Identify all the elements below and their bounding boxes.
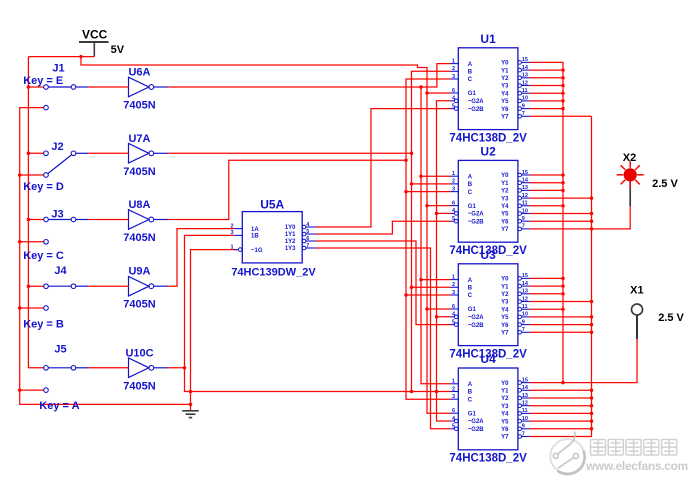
svg-text:U4: U4 <box>480 352 496 366</box>
svg-text:B: B <box>468 286 473 292</box>
svg-text:J4: J4 <box>54 265 67 277</box>
svg-text:C: C <box>468 293 473 299</box>
svg-text:Key = C: Key = C <box>23 250 64 262</box>
svg-text:6: 6 <box>306 236 309 242</box>
svg-text:7: 7 <box>306 243 309 249</box>
svg-text:7405N: 7405N <box>123 380 155 392</box>
svg-text:14: 14 <box>522 65 529 71</box>
decoder U2 74HC138D_2V <box>449 145 530 257</box>
svg-text:~G2A: ~G2A <box>468 315 485 321</box>
svg-text:J3: J3 <box>51 209 63 221</box>
svg-text:Key = B: Key = B <box>23 319 64 331</box>
svg-text:C: C <box>468 397 473 403</box>
svg-text:Y1: Y1 <box>501 181 509 187</box>
svg-text:U6A: U6A <box>128 67 150 79</box>
svg-text:~G2B: ~G2B <box>468 219 485 225</box>
svg-text:X1: X1 <box>630 284 643 296</box>
svg-text:J5: J5 <box>54 343 66 355</box>
watermark logo (decorative) <box>550 432 584 475</box>
svg-text:Y5: Y5 <box>501 419 509 425</box>
svg-text:Y4: Y4 <box>501 204 509 210</box>
svg-text:Y2: Y2 <box>501 189 509 195</box>
svg-text:5: 5 <box>452 424 455 430</box>
svg-text:3: 3 <box>452 290 455 296</box>
svg-text:13: 13 <box>522 393 528 399</box>
svg-text:~G2A: ~G2A <box>468 212 485 218</box>
stubs: G1 pins from VCC trunk <box>427 93 450 309</box>
svg-text:12: 12 <box>522 296 528 302</box>
svg-text:2.5 V: 2.5 V <box>658 312 684 324</box>
junction: ground rail <box>189 403 193 407</box>
svg-text:11: 11 <box>522 201 528 207</box>
svg-text:12: 12 <box>522 80 528 86</box>
decoder U4 74HC138D_2V <box>449 352 530 464</box>
wire: U4 Y1-Y6 to V2 <box>530 390 592 429</box>
svg-text:Y0: Y0 <box>501 277 509 283</box>
svg-text:7405N: 7405N <box>123 100 155 112</box>
svg-text:1Y0: 1Y0 <box>285 225 296 231</box>
svg-text:12: 12 <box>522 193 528 199</box>
svg-text:~G2A: ~G2A <box>468 99 485 105</box>
decoder U5A 74HC139DW_2V <box>230 197 316 278</box>
wire: VCC feeder to G1 trunk <box>81 57 450 414</box>
svg-text:7405N: 7405N <box>123 232 155 244</box>
svg-text:15: 15 <box>522 377 528 383</box>
svg-text:13: 13 <box>522 185 528 191</box>
svg-text:Y4: Y4 <box>501 412 509 418</box>
junction V1 bottom at X1 row <box>561 381 565 385</box>
power VCC 5V <box>79 28 125 57</box>
wire: V1 collector bus with U1 Y0 <box>530 62 563 382</box>
svg-text:Key = A: Key = A <box>39 400 79 412</box>
wire: U8A output riser to C-trunk <box>168 160 407 219</box>
svg-text:www.elecfans.com: www.elecfans.com <box>585 459 688 473</box>
wire: C-trunk (U8A net) to C pins <box>406 79 450 399</box>
svg-text:6: 6 <box>452 200 455 206</box>
svg-text:7: 7 <box>522 431 525 437</box>
wire: U9A output to U5A 1A <box>168 229 235 287</box>
svg-text:X2: X2 <box>623 152 636 164</box>
wire: J3 pole to U8A input <box>88 219 129 221</box>
wire: V2 collector bus with U4 Y7 <box>530 116 592 436</box>
svg-text:14: 14 <box>522 385 529 391</box>
svg-text:Y1: Y1 <box>501 68 509 74</box>
indicator lamp X1 (off) 2.5 V <box>630 284 684 339</box>
svg-text:9: 9 <box>522 319 525 325</box>
junctions on 1B riser row <box>183 366 193 393</box>
svg-text:9: 9 <box>522 103 525 109</box>
wire: U5A 1Y3 to U4 ~G2B <box>316 248 451 429</box>
svg-text:Key = E: Key = E <box>23 75 63 87</box>
svg-text:2.5 V: 2.5 V <box>652 178 678 190</box>
svg-text:5: 5 <box>452 216 455 222</box>
svg-text:C: C <box>468 190 473 196</box>
svg-text:U10C: U10C <box>125 347 153 359</box>
svg-text:Y4: Y4 <box>501 91 509 97</box>
svg-text:J1: J1 <box>52 63 64 75</box>
junctions on B-trunk <box>410 152 414 394</box>
junctions V1 at U1 rows <box>561 68 565 110</box>
svg-text:G1: G1 <box>468 411 477 417</box>
junctions V1 at U3 rows <box>561 277 565 311</box>
svg-text:3: 3 <box>230 230 233 236</box>
svg-text:~1G: ~1G <box>251 248 263 254</box>
svg-text:74HC139DW_2V: 74HC139DW_2V <box>231 266 316 278</box>
svg-text:~G2B: ~G2B <box>468 107 485 113</box>
wire: J1 pole to U6A input <box>88 86 129 88</box>
svg-text:3: 3 <box>452 394 455 400</box>
svg-text:5: 5 <box>306 229 309 235</box>
svg-text:U9A: U9A <box>128 266 150 278</box>
inverter U6A 7405N <box>123 67 167 112</box>
svg-text:Y7: Y7 <box>501 331 509 337</box>
svg-text:1: 1 <box>452 171 455 177</box>
wire: U5A ~1G to ground <box>191 250 237 411</box>
svg-text:Y3: Y3 <box>501 196 509 202</box>
svg-text:U2: U2 <box>480 145 496 159</box>
svg-text:Key = D: Key = D <box>23 181 64 193</box>
svg-text:74HC138D_2V: 74HC138D_2V <box>449 453 527 465</box>
svg-text:Y5: Y5 <box>501 99 509 105</box>
svg-text:10: 10 <box>522 416 528 422</box>
svg-text:6: 6 <box>452 88 455 94</box>
svg-text:Y4: Y4 <box>501 307 509 313</box>
wire: U2 Y0,Y1,Y2,Y4 to V1 <box>530 175 563 206</box>
svg-text:9: 9 <box>522 424 525 430</box>
junction: VCC branch and G1 taps <box>79 55 429 311</box>
svg-text:10: 10 <box>522 208 528 214</box>
svg-text:B: B <box>468 182 473 188</box>
svg-text:Y7: Y7 <box>501 115 509 121</box>
inverter U10C 7405N <box>123 347 167 392</box>
inverter U9A 7405N <box>123 266 167 311</box>
junctions V1 at U2 rows <box>561 173 565 207</box>
svg-text:11: 11 <box>522 408 528 414</box>
wire: J4 pole to U9A input <box>88 285 129 287</box>
svg-text:Y6: Y6 <box>501 107 509 113</box>
svg-text:Y0: Y0 <box>501 173 509 179</box>
wire: U10C output to 1B riser <box>168 367 185 369</box>
svg-text:Y2: Y2 <box>501 396 509 402</box>
wire: B-trunk (U7A net) to B pins <box>412 71 451 391</box>
switch J3 Key = C <box>23 209 88 263</box>
svg-text:U3: U3 <box>480 248 496 262</box>
svg-text:11: 11 <box>522 88 528 94</box>
wire: U2 Y7 to lamp X2 <box>530 206 630 229</box>
svg-text:J2: J2 <box>51 141 63 153</box>
svg-text:Y3: Y3 <box>501 404 509 410</box>
svg-text:15: 15 <box>522 273 528 279</box>
svg-text:~G2B: ~G2B <box>468 323 485 329</box>
svg-text:10: 10 <box>522 96 528 102</box>
svg-text:A: A <box>468 278 473 284</box>
svg-text:Y5: Y5 <box>501 315 509 321</box>
svg-text:U1: U1 <box>480 32 496 46</box>
svg-text:U5A: U5A <box>260 197 284 211</box>
svg-text:3: 3 <box>452 186 455 192</box>
svg-text:7: 7 <box>522 224 525 230</box>
svg-text:A: A <box>468 382 473 388</box>
svg-text:9: 9 <box>522 216 525 222</box>
svg-text:Y2: Y2 <box>501 76 509 82</box>
wire: A-trunk (U6A net) to A pins <box>421 87 450 384</box>
svg-text:G1: G1 <box>468 204 477 210</box>
svg-text:5V: 5V <box>111 44 125 56</box>
wire: U1 Y7 to V2 top <box>530 115 592 117</box>
indicator lamp X2 (lit) 2.5 V <box>617 152 679 206</box>
wire: bus1 VCC distribution to switch upper throws <box>28 57 43 368</box>
wire: U3 Y0,Y1,Y2,Y4 to V1 <box>530 278 563 309</box>
watermark text (decorative) <box>591 440 677 456</box>
svg-text:1Y1: 1Y1 <box>285 232 296 238</box>
svg-text:Y0: Y0 <box>501 61 509 67</box>
wire: J2 pole to U7A input <box>88 152 129 154</box>
wire: U7A output to B-trunk <box>168 152 412 154</box>
svg-text:1: 1 <box>452 379 455 385</box>
svg-text:74HC138D_2V: 74HC138D_2V <box>449 132 527 144</box>
svg-text:B: B <box>468 390 473 396</box>
svg-text:7: 7 <box>522 111 525 117</box>
svg-text:2: 2 <box>230 223 233 229</box>
svg-text:B: B <box>468 70 473 76</box>
wire: U5A 1Y2 to U3 ~G2B <box>316 241 451 325</box>
svg-text:VCC: VCC <box>82 28 108 42</box>
inverter U7A 7405N <box>123 133 167 178</box>
decoder U3 74HC138D_2V <box>449 248 530 360</box>
junctions V2 at U3 rows <box>590 300 594 334</box>
svg-text:15: 15 <box>522 57 528 63</box>
switch J2 Key = D <box>23 141 88 193</box>
wire: U5A 1Y0 to U1 ~G2B <box>316 109 451 227</box>
svg-text:6: 6 <box>452 408 455 414</box>
svg-text:1Y2: 1Y2 <box>285 239 296 245</box>
svg-text:Y1: Y1 <box>501 284 509 290</box>
svg-text:2: 2 <box>452 282 455 288</box>
wire: U6A output to A-trunk and U1 A pin <box>168 64 451 87</box>
svg-text:14: 14 <box>522 281 529 287</box>
svg-text:Y5: Y5 <box>501 212 509 218</box>
svg-text:Y0: Y0 <box>501 381 509 387</box>
svg-text:Y6: Y6 <box>501 323 509 329</box>
junctions on C-trunk <box>404 159 408 297</box>
wire: J5 pole to U10C input <box>88 367 129 369</box>
svg-text:G1: G1 <box>468 91 477 97</box>
switch J1 Key = E <box>23 63 88 110</box>
svg-text:~G2A: ~G2A <box>468 419 485 425</box>
svg-text:6: 6 <box>452 304 455 310</box>
svg-text:2: 2 <box>452 386 455 392</box>
svg-text:Y6: Y6 <box>501 219 509 225</box>
svg-text:U8A: U8A <box>128 199 150 211</box>
wire: U5A 1B riser and ground-row feed to U4 B pin <box>185 235 451 391</box>
svg-text:14: 14 <box>522 178 529 184</box>
svg-text:13: 13 <box>522 73 528 79</box>
wire: bus2 switch lower throws to ground rail <box>20 108 191 405</box>
svg-text:5: 5 <box>452 319 455 325</box>
svg-text:1B: 1B <box>251 234 259 240</box>
junction dots on bus1 <box>27 85 31 288</box>
svg-text:1: 1 <box>230 244 233 250</box>
svg-text:10: 10 <box>522 312 528 318</box>
svg-text:Y2: Y2 <box>501 292 509 298</box>
svg-text:Y6: Y6 <box>501 427 509 433</box>
svg-text:U7A: U7A <box>128 133 150 145</box>
svg-text:~G2B: ~G2B <box>468 427 485 433</box>
wire: U5A 1Y1 to U2 ~G2B <box>316 221 451 234</box>
svg-text:A: A <box>468 62 473 68</box>
junctions on A-trunk <box>419 85 423 281</box>
wire: U2 Y3,Y5,Y6 to V2 <box>530 198 592 221</box>
wire: VCC top rail <box>28 56 94 58</box>
svg-text:1Y3: 1Y3 <box>285 246 296 252</box>
junction V2 at X2 row <box>590 227 594 231</box>
svg-text:2: 2 <box>452 66 455 72</box>
svg-text:1: 1 <box>452 58 455 64</box>
svg-text:7: 7 <box>522 327 525 333</box>
svg-text:2: 2 <box>452 179 455 185</box>
inverter U8A 7405N <box>123 199 167 244</box>
svg-text:A: A <box>468 174 473 180</box>
svg-text:13: 13 <box>522 289 528 295</box>
switch J4 Key = B <box>23 265 88 331</box>
decoder U1 74HC138D_2V <box>449 32 530 144</box>
wire: G2A-trunk to ~G2A pins <box>437 101 451 421</box>
junctions on G2A-trunk <box>435 212 439 394</box>
svg-text:7405N: 7405N <box>123 299 155 311</box>
wire: U1 Y1-Y6 to V1 <box>530 70 563 109</box>
svg-text:12: 12 <box>522 401 528 407</box>
svg-text:Y3: Y3 <box>501 300 509 306</box>
wire: U4 Y0 to probe X1 <box>530 339 637 383</box>
svg-text:3: 3 <box>452 74 455 80</box>
junction dots on bus2 <box>18 173 22 392</box>
junctions V2 at U2 rows <box>590 196 594 223</box>
junctions V2 at U4 rows <box>590 389 594 431</box>
svg-text:11: 11 <box>522 304 528 310</box>
svg-text:G1: G1 <box>468 307 477 313</box>
svg-text:15: 15 <box>522 170 528 176</box>
svg-text:Y7: Y7 <box>501 227 509 233</box>
svg-text:5: 5 <box>452 103 455 109</box>
switch J5 Key = A <box>39 343 88 412</box>
svg-text:7405N: 7405N <box>123 166 155 178</box>
svg-text:Y1: Y1 <box>501 389 509 395</box>
ground <box>182 411 198 418</box>
svg-text:Y7: Y7 <box>501 435 509 441</box>
svg-text:Y3: Y3 <box>501 84 509 90</box>
wire: U3 Y3,Y5,Y6,Y7 to V2 <box>530 302 592 333</box>
svg-text:1A: 1A <box>251 227 259 233</box>
svg-text:C: C <box>468 77 473 83</box>
svg-text:1: 1 <box>452 274 455 280</box>
